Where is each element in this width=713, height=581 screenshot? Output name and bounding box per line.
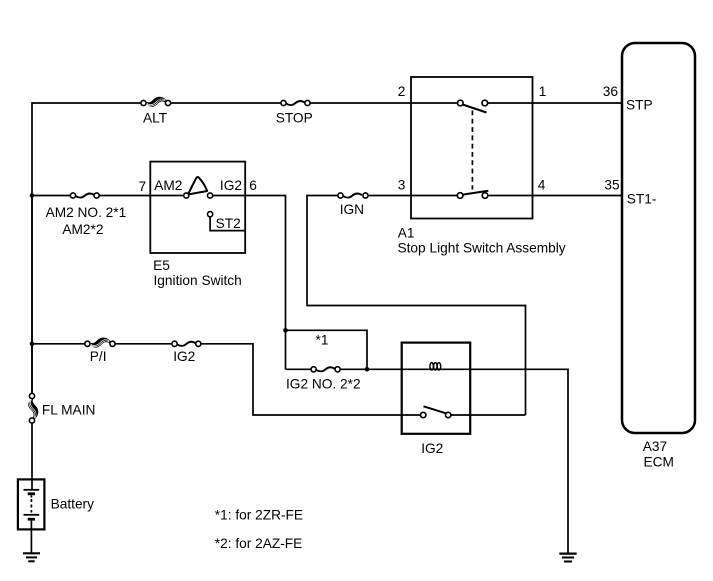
svg-text:AM2 NO. 2*1: AM2 NO. 2*1: [46, 205, 127, 220]
svg-text:35: 35: [604, 177, 620, 192]
svg-text:AM2*2: AM2*2: [62, 222, 103, 237]
switch STP side: [458, 100, 488, 112]
fusible link P/I: [85, 338, 115, 347]
fuse IG2: [172, 341, 201, 346]
svg-text:IGN: IGN: [340, 202, 364, 217]
ECM box A37: [622, 43, 695, 433]
svg-text:STP: STP: [626, 98, 653, 113]
svg-text:ST1-: ST1-: [627, 192, 657, 207]
wire battery feed top row: [32, 103, 622, 396]
relay box IG2: [402, 343, 471, 434]
svg-text:P/I: P/I: [90, 349, 107, 364]
junction node AM2 row: [30, 193, 35, 198]
svg-text:3: 3: [398, 177, 406, 192]
wire coil to ground: [442, 369, 568, 552]
junction node bypass right: [365, 367, 370, 372]
ignition switch contacts AM2-IG2: [184, 177, 213, 198]
svg-text:ST2: ST2: [216, 216, 241, 231]
wire IGN row: [307, 196, 622, 416]
junction node IG2 row: [30, 342, 35, 347]
svg-text:7: 7: [139, 179, 147, 194]
svg-text:*2: for 2AZ-FE: *2: for 2AZ-FE: [215, 536, 302, 551]
switch ST1 side: [457, 191, 488, 199]
wire IG2 NO.2 bypass: [286, 330, 429, 369]
svg-text:A37: A37: [643, 439, 667, 454]
battery box: [18, 479, 45, 529]
svg-text:Battery: Battery: [51, 496, 95, 511]
svg-text:A1: A1: [398, 226, 415, 241]
stop light switch box A1: [411, 77, 533, 219]
svg-text:FL MAIN: FL MAIN: [42, 403, 96, 418]
ignition switch box E5: [150, 162, 245, 253]
wire AM2 row: [32, 196, 286, 331]
svg-text:E5: E5: [153, 258, 170, 273]
fuse STOP: [281, 100, 310, 105]
fuse IG2 NO. 2: [311, 367, 340, 372]
fuse IGN: [338, 193, 368, 198]
terminal ST2: [208, 212, 246, 231]
svg-text:4: 4: [538, 177, 546, 192]
relay switch contacts: [421, 406, 451, 417]
ground relay: [559, 554, 576, 562]
svg-text:ECM: ECM: [644, 455, 674, 470]
fusible link ALT: [141, 97, 171, 106]
svg-text:*1: for 2ZR-FE: *1: for 2ZR-FE: [215, 507, 303, 522]
wire IG2 row: [32, 344, 526, 415]
svg-text:AM2: AM2: [154, 178, 182, 193]
svg-text:IG2 NO. 2*2: IG2 NO. 2*2: [286, 377, 361, 392]
fuse AM2 NO. 2: [70, 193, 99, 198]
relay coil: [428, 363, 442, 370]
svg-text:STOP: STOP: [276, 110, 313, 125]
svg-text:36: 36: [603, 84, 619, 99]
ground battery: [23, 553, 40, 561]
svg-text:Stop Light Switch Assembly: Stop Light Switch Assembly: [398, 240, 566, 255]
svg-text:IG2: IG2: [421, 441, 443, 456]
svg-text:1: 1: [539, 84, 547, 99]
svg-text:IG2: IG2: [173, 349, 195, 364]
battery cells: [24, 490, 40, 553]
fusible link FL MAIN: [29, 196, 38, 490]
svg-text:2: 2: [398, 84, 406, 99]
svg-text:*1: *1: [316, 332, 329, 347]
mechanical link dashed: [471, 111, 473, 190]
svg-text:Ignition Switch: Ignition Switch: [154, 273, 242, 288]
svg-text:IG2: IG2: [220, 178, 242, 193]
junction node bypass left: [283, 328, 288, 333]
svg-text:6: 6: [249, 178, 257, 193]
svg-text:ALT: ALT: [143, 110, 168, 125]
